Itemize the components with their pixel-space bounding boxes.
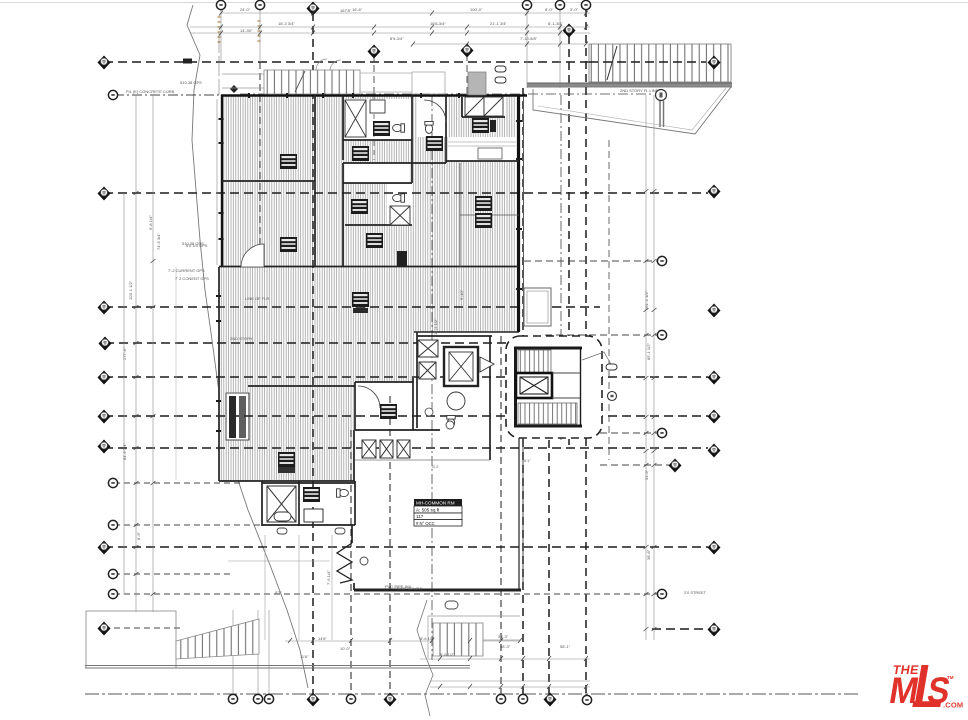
bottom-left planter outline bbox=[86, 611, 176, 668]
top-right bath toilet bbox=[425, 122, 433, 134]
downspout marker circle with stem bbox=[656, 90, 667, 101]
upper deck tread band bbox=[264, 70, 360, 94]
white pocket vestibule bbox=[355, 382, 413, 430]
top stub col 260 bbox=[259, 9, 261, 62]
svg-text:74'-9 3/4": 74'-9 3/4" bbox=[156, 233, 161, 250]
bottom dim col 258 bbox=[257, 610, 259, 694]
wall bottom room left lower x354 bbox=[353, 583, 355, 590]
room hatch mid band bbox=[218, 267, 516, 332]
svg-text:16'-6": 16'-6" bbox=[352, 7, 363, 12]
grid line row E y377 bbox=[104, 376, 708, 378]
elevator dark box bbox=[516, 373, 552, 398]
bath shower big X bbox=[267, 486, 296, 522]
svg-text:A: 505 sq ft: A: 505 sq ft bbox=[416, 508, 440, 513]
bedroom right labels pair bbox=[475, 196, 492, 211]
cluster circle tag bbox=[608, 392, 617, 401]
svg-text:8'-9": 8'-9" bbox=[136, 531, 141, 540]
linen labels hall bbox=[352, 146, 369, 161]
grid col 569 bbox=[568, 36, 570, 445]
laundry shelf bbox=[478, 148, 502, 159]
svg-text:84'-6 3/4": 84'-6 3/4" bbox=[122, 443, 127, 460]
grid line row B y193 bbox=[104, 192, 708, 194]
svg-text:38'-8": 38'-8" bbox=[646, 549, 651, 560]
below-wall pill 2 bbox=[335, 528, 345, 534]
svg-text:8'9-3/4": 8'9-3/4" bbox=[390, 36, 404, 41]
balcony heavy edge bbox=[527, 83, 732, 87]
left dim col x153 bbox=[152, 95, 154, 612]
roof overhang line left bbox=[216, 99, 218, 265]
bottom dim col 233 bbox=[232, 610, 234, 694]
svg-text:2ND STORY FL LINE: 2ND STORY FL LINE bbox=[620, 88, 659, 93]
window ticks top wall bbox=[248, 93, 460, 98]
top dim row y13 bbox=[221, 12, 590, 14]
left exterior wall mid bbox=[218, 267, 220, 382]
grid col 561 dash-dot bbox=[560, 95, 562, 440]
svg-text:103'-1 1/2": 103'-1 1/2" bbox=[128, 280, 133, 300]
partition col x413 bbox=[412, 378, 414, 430]
bath1 counter bbox=[370, 100, 385, 113]
svg-text:11'6": 11'6" bbox=[300, 654, 309, 659]
svg-text:2ND STORY: 2ND STORY bbox=[230, 336, 253, 341]
vestibule label bbox=[380, 404, 397, 419]
bed label upper-left room bbox=[280, 154, 297, 169]
white pocket lower-left bath block bbox=[262, 481, 355, 526]
bottom-left stair bbox=[176, 619, 259, 659]
powder labels bbox=[303, 487, 320, 502]
white pocket stair room bbox=[462, 97, 505, 117]
top stub col 560 bbox=[559, 9, 561, 88]
svg-text:8'-0": 8'-0" bbox=[545, 7, 554, 12]
grid col 549 bbox=[548, 336, 550, 694]
shower X box bath2 bbox=[390, 206, 410, 225]
stair arrow diagonal bbox=[607, 46, 617, 80]
stair labels bbox=[472, 118, 489, 133]
dim ext verticals below bath block bbox=[265, 535, 332, 640]
svg-text:31'-6": 31'-6" bbox=[644, 469, 649, 480]
svg-text:2'0 STREET: 2'0 STREET bbox=[684, 590, 707, 595]
right dim col x646 bbox=[645, 95, 647, 640]
retaining wall double line bbox=[85, 666, 470, 669]
white pocket hall upper bbox=[345, 163, 409, 183]
left dim col x136 bbox=[135, 95, 137, 612]
svg-text:# N° OCC: # N° OCC bbox=[416, 521, 435, 526]
grid line y465 right bbox=[600, 464, 669, 466]
cluster leader line bbox=[582, 352, 612, 366]
markers top row bbox=[216, 0, 225, 9]
bottom stair outline ext bbox=[428, 616, 520, 658]
wall y140 baths bbox=[343, 139, 412, 141]
elevator door arrow bbox=[480, 357, 494, 372]
svg-text:7'-6 1/4": 7'-6 1/4" bbox=[326, 570, 331, 585]
grid col 501 bbox=[500, 336, 502, 694]
partition col x412 upper bbox=[411, 95, 413, 183]
grid line y335 right bbox=[545, 334, 657, 336]
vent pill 1 bbox=[495, 66, 506, 72]
svg-text:LINE OF FLR: LINE OF FLR bbox=[245, 296, 269, 301]
faint top border line bbox=[0, 2, 968, 4]
wall corridor y386 bbox=[248, 385, 355, 387]
right exterior wall bbox=[517, 95, 520, 332]
svg-text:11'-2 1/2": 11'-2 1/2" bbox=[433, 318, 438, 335]
svg-text:9'-8 1/4": 9'-8 1/4" bbox=[148, 215, 153, 230]
lobby shower pentagon bbox=[418, 340, 438, 357]
top dim row y44 bbox=[413, 43, 588, 45]
lower room label bbox=[278, 452, 295, 467]
wall vestibule top y382 bbox=[355, 381, 413, 383]
logo background bbox=[858, 650, 968, 715]
stair treads lower bbox=[518, 403, 577, 424]
bottom room right wall x519 bbox=[518, 436, 520, 590]
bath block walls bbox=[262, 481, 355, 526]
property line label row y95 bbox=[114, 94, 222, 96]
bottom dim row y681 bbox=[430, 680, 590, 682]
bed label lower-left room bbox=[280, 237, 297, 252]
wall lower-left bottom y481 bbox=[219, 480, 355, 482]
svg-text:117: 117 bbox=[416, 514, 424, 519]
svg-text:3'-0": 3'-0" bbox=[570, 7, 579, 12]
dim ext vertical x176 bbox=[175, 267, 177, 480]
bottom dim row y687 bbox=[430, 686, 590, 688]
grid col 260 lower bbox=[259, 62, 261, 267]
wall laundry bottom y161 bbox=[446, 160, 519, 162]
bottom-center stair bbox=[433, 623, 483, 656]
dim ticks left cols bbox=[134, 191, 156, 596]
toilet below bottom wall bbox=[445, 601, 458, 609]
markers left column bbox=[98, 56, 111, 70]
top stub col 221 bbox=[220, 9, 222, 62]
grid line row F y416 bbox=[104, 415, 708, 417]
bottom dim row y659 bbox=[420, 658, 590, 660]
white pocket bath2 bbox=[387, 184, 412, 225]
logo L tall slab bbox=[912, 665, 941, 707]
svg-text:G 2: G 2 bbox=[432, 464, 439, 469]
wall upper rooms bottom y267 bbox=[219, 266, 519, 268]
site path curve bottom bbox=[417, 600, 433, 716]
white pocket top-right bath bbox=[417, 97, 448, 137]
grid line y261 right bbox=[524, 260, 657, 262]
cluster dashed boundary bbox=[506, 336, 602, 438]
balcony sloped outline outer bbox=[533, 87, 731, 134]
grid col 609 bbox=[608, 140, 610, 460]
grid col 523 bbox=[522, 88, 524, 694]
partition col x315 bbox=[314, 95, 316, 267]
closet outline bbox=[226, 393, 249, 440]
grid line y594 bbox=[114, 593, 657, 595]
svg-text:7'-10-5/8": 7'-10-5/8" bbox=[520, 36, 538, 41]
svg-text:277'-9": 277'-9" bbox=[122, 347, 127, 360]
thin line under X boxes y460 bbox=[355, 459, 490, 461]
column circle mark2 bbox=[360, 557, 368, 565]
survey blob on PL bbox=[183, 59, 192, 64]
svg-text:6'1": 6'1" bbox=[524, 458, 531, 463]
room hatch upper block bbox=[222, 95, 516, 267]
bath1 toilet bbox=[393, 124, 405, 132]
balcony sloped outline inner bbox=[538, 88, 726, 130]
deck arcs bbox=[316, 59, 341, 70]
wall lobby area top y332 bbox=[414, 331, 519, 333]
grid line row H y547 bbox=[104, 546, 708, 548]
powder box bbox=[304, 509, 323, 522]
top exterior wall bbox=[221, 94, 527, 97]
grid line row C y307 bbox=[104, 306, 600, 308]
svg-text:100'-0": 100'-0" bbox=[470, 7, 483, 12]
grid col 313 bbox=[312, 13, 314, 694]
svg-text:16'6-3/4": 16'6-3/4" bbox=[430, 21, 446, 26]
door arc left room bbox=[241, 244, 264, 267]
bottom dim row y641 bbox=[285, 640, 520, 642]
closet dark strip 1 bbox=[229, 396, 236, 438]
top stub col 527 bbox=[526, 9, 528, 88]
svg-text:58'-3": 58'-3" bbox=[500, 644, 511, 649]
white pocket elevator lobby bbox=[414, 332, 492, 460]
grid line y628 left bbox=[104, 627, 180, 629]
2nd story line y94 right bbox=[240, 93, 654, 95]
grid line row J y629 right stub bbox=[652, 628, 708, 630]
cluster vent pill bbox=[606, 364, 617, 370]
below-wall pill 1 bbox=[277, 528, 287, 534]
grid col 374 bbox=[373, 54, 375, 96]
right wall offset line bbox=[523, 97, 525, 330]
stairwell walls bbox=[514, 348, 582, 427]
grid col 390 bbox=[389, 396, 391, 694]
svg-text:8'-6 1/2": 8'-6 1/2" bbox=[420, 636, 435, 641]
stair diagonals upper right bbox=[465, 97, 503, 116]
closet dark strip 2 bbox=[239, 396, 246, 438]
partition col x462 bbox=[461, 97, 463, 117]
top-right bath door arc bbox=[424, 100, 446, 122]
dim ticks right cols bbox=[644, 189, 657, 631]
lobby X box bbox=[419, 362, 436, 379]
landing lines right bbox=[552, 373, 580, 398]
left dim col x124 bbox=[123, 193, 125, 594]
room hatch lower-mid band bbox=[218, 332, 420, 382]
bath2 toilet bbox=[393, 194, 405, 202]
window ticks left wall bbox=[216, 118, 224, 432]
svg-text:8'3": 8'3" bbox=[275, 590, 282, 595]
survey tick column tan x219 bbox=[218, 16, 261, 43]
property line curve bbox=[187, 5, 308, 688]
vestibule door arc bbox=[358, 386, 380, 408]
wall lower-left block right edge x354 bbox=[353, 430, 355, 481]
closet labels room2 bbox=[351, 199, 368, 214]
svg-text:P/L (E) CONCRETE CURB: P/L (E) CONCRETE CURB bbox=[126, 89, 175, 94]
wall bottom room left upper x352 bbox=[351, 525, 353, 543]
svg-text:7' 2 CONENT GPS: 7' 2 CONENT GPS bbox=[175, 276, 209, 281]
laundry shelf lines bbox=[448, 142, 516, 146]
room hatch lower-left block bbox=[218, 382, 355, 481]
left exterior wall upper bbox=[221, 95, 223, 267]
bottom dim col 269 bbox=[268, 610, 270, 694]
wall hall bottom y183 bbox=[343, 182, 412, 184]
markers right column bbox=[708, 56, 721, 70]
wall stair room y117 bbox=[462, 116, 505, 118]
markers bottom row bbox=[228, 694, 237, 703]
wall vestibule bottom y430 bbox=[355, 429, 440, 431]
bottom room right wall inner bbox=[522, 436, 524, 590]
balcony box outline bbox=[524, 288, 551, 326]
partition col x446 upper bbox=[445, 95, 447, 163]
svg-text:14'6": 14'6" bbox=[318, 636, 327, 641]
wall between upper rooms y181 bbox=[222, 180, 315, 182]
svg-text:PVC PIPE INV: PVC PIPE INV bbox=[385, 584, 412, 589]
powder toilet bbox=[337, 489, 349, 497]
top dim row y33 bbox=[190, 32, 590, 34]
labels below hall bbox=[366, 233, 383, 248]
svg-text:510.38 GPS: 510.38 GPS bbox=[180, 80, 202, 85]
left exterior wall lower bbox=[218, 382, 220, 481]
stair treads upper bbox=[518, 350, 551, 373]
lobby toilet bbox=[447, 416, 455, 428]
storage X boxes row bbox=[362, 440, 410, 458]
mid band labels bbox=[352, 292, 369, 307]
svg-text:7'-2 CURRENT GPS: 7'-2 CURRENT GPS bbox=[168, 268, 205, 273]
grid col 432 dash-dot bbox=[431, 96, 433, 660]
dim ticks top rows bbox=[219, 11, 588, 47]
round table bbox=[447, 392, 465, 410]
grid line row D y343 bbox=[105, 342, 543, 344]
grid row y62 over stair band bbox=[589, 61, 706, 63]
bottom boundary dash-dot y694 bbox=[85, 693, 858, 695]
svg-text:5'-10": 5'-10" bbox=[459, 289, 464, 300]
col 219 stub bbox=[218, 33, 220, 95]
bath1 labels bbox=[373, 121, 390, 136]
gray equipment box bbox=[468, 72, 486, 95]
svg-text:510.38 GPS: 510.38 GPS bbox=[182, 241, 204, 246]
equipment outline above wall bbox=[412, 72, 445, 94]
elevator shaft main bbox=[444, 347, 478, 386]
grid line y525 left bbox=[114, 524, 352, 526]
wall y225 bath2 bottom bbox=[345, 224, 412, 226]
partition col x343 bbox=[342, 95, 344, 160]
bath toilet pill bbox=[274, 512, 291, 521]
partition col x355 lower bbox=[354, 382, 356, 430]
window ticks right wall bbox=[516, 120, 522, 290]
dim line left strip y561 bbox=[228, 560, 330, 562]
common room label table bbox=[414, 499, 462, 526]
grid line y433 right bbox=[600, 432, 657, 434]
small marker diamond on top wall bbox=[230, 85, 238, 93]
white pocket bath1 bbox=[344, 99, 412, 140]
svg-text:14'-30": 14'-30" bbox=[240, 28, 253, 33]
top dim row y27 bbox=[190, 26, 590, 28]
vent pill 2 bbox=[495, 77, 506, 83]
partition col x355 bath block bbox=[354, 481, 356, 525]
grid line row A y62 bbox=[104, 61, 708, 63]
grid col 351 bbox=[350, 430, 352, 694]
column circle mark bbox=[446, 421, 454, 429]
svg-text:21'-1 3/4": 21'-1 3/4" bbox=[490, 21, 507, 26]
pergola lines right of deck bbox=[360, 73, 412, 92]
white pocket right strip below wall bbox=[492, 332, 520, 436]
wall lobby right x490 bbox=[489, 336, 491, 460]
lobby sink bbox=[425, 408, 433, 416]
dim ticks bottom row bbox=[288, 638, 588, 689]
svg-text:58'-3": 58'-3" bbox=[498, 634, 509, 639]
bedroom3 labels bbox=[426, 136, 443, 151]
svg-text:MH-COMMON RM: MH-COMMON RM bbox=[416, 501, 455, 506]
wall hall top y163 bbox=[343, 162, 446, 164]
svg-text:167'8": 167'8" bbox=[340, 8, 352, 13]
svg-text:10'-0": 10'-0" bbox=[340, 646, 351, 651]
svg-text:.COM: .COM bbox=[943, 701, 963, 710]
grid line y574 left bbox=[114, 573, 232, 575]
partition col x343 lower bbox=[342, 163, 344, 267]
white pocket laundry room bbox=[448, 137, 516, 161]
right dim col x654 bbox=[653, 95, 655, 640]
shower X box bath1 bbox=[345, 100, 366, 137]
insulation zigzag wall bbox=[337, 543, 352, 583]
bottom room bottom wall y590 bbox=[354, 589, 521, 592]
white pocket closet area bbox=[226, 392, 248, 440]
grid line row G y448 bbox=[104, 447, 708, 449]
stair band top right bbox=[589, 44, 731, 82]
grid line y483 left bbox=[114, 482, 240, 484]
svg-text:85'-1 1/2": 85'-1 1/2" bbox=[646, 343, 651, 360]
svg-text:161'-1 1/2": 161'-1 1/2" bbox=[644, 290, 649, 310]
svg-text:TM: TM bbox=[947, 675, 954, 680]
svg-text:18'-3 3/4": 18'-3 3/4" bbox=[278, 21, 295, 26]
fixture dark lower bbox=[397, 251, 407, 266]
svg-text:24'-0": 24'-0" bbox=[240, 7, 251, 12]
svg-text:58'-1": 58'-1" bbox=[560, 644, 571, 649]
wall lobby top y336 bbox=[417, 335, 492, 337]
grid col 586 bbox=[585, 9, 587, 695]
grid col 467 bbox=[466, 54, 468, 96]
svg-text:9'-6 1/2": 9'-6 1/2" bbox=[440, 652, 455, 657]
wall lobby left x417 bbox=[416, 332, 418, 428]
deck edge lines left of tread band bbox=[222, 74, 264, 88]
